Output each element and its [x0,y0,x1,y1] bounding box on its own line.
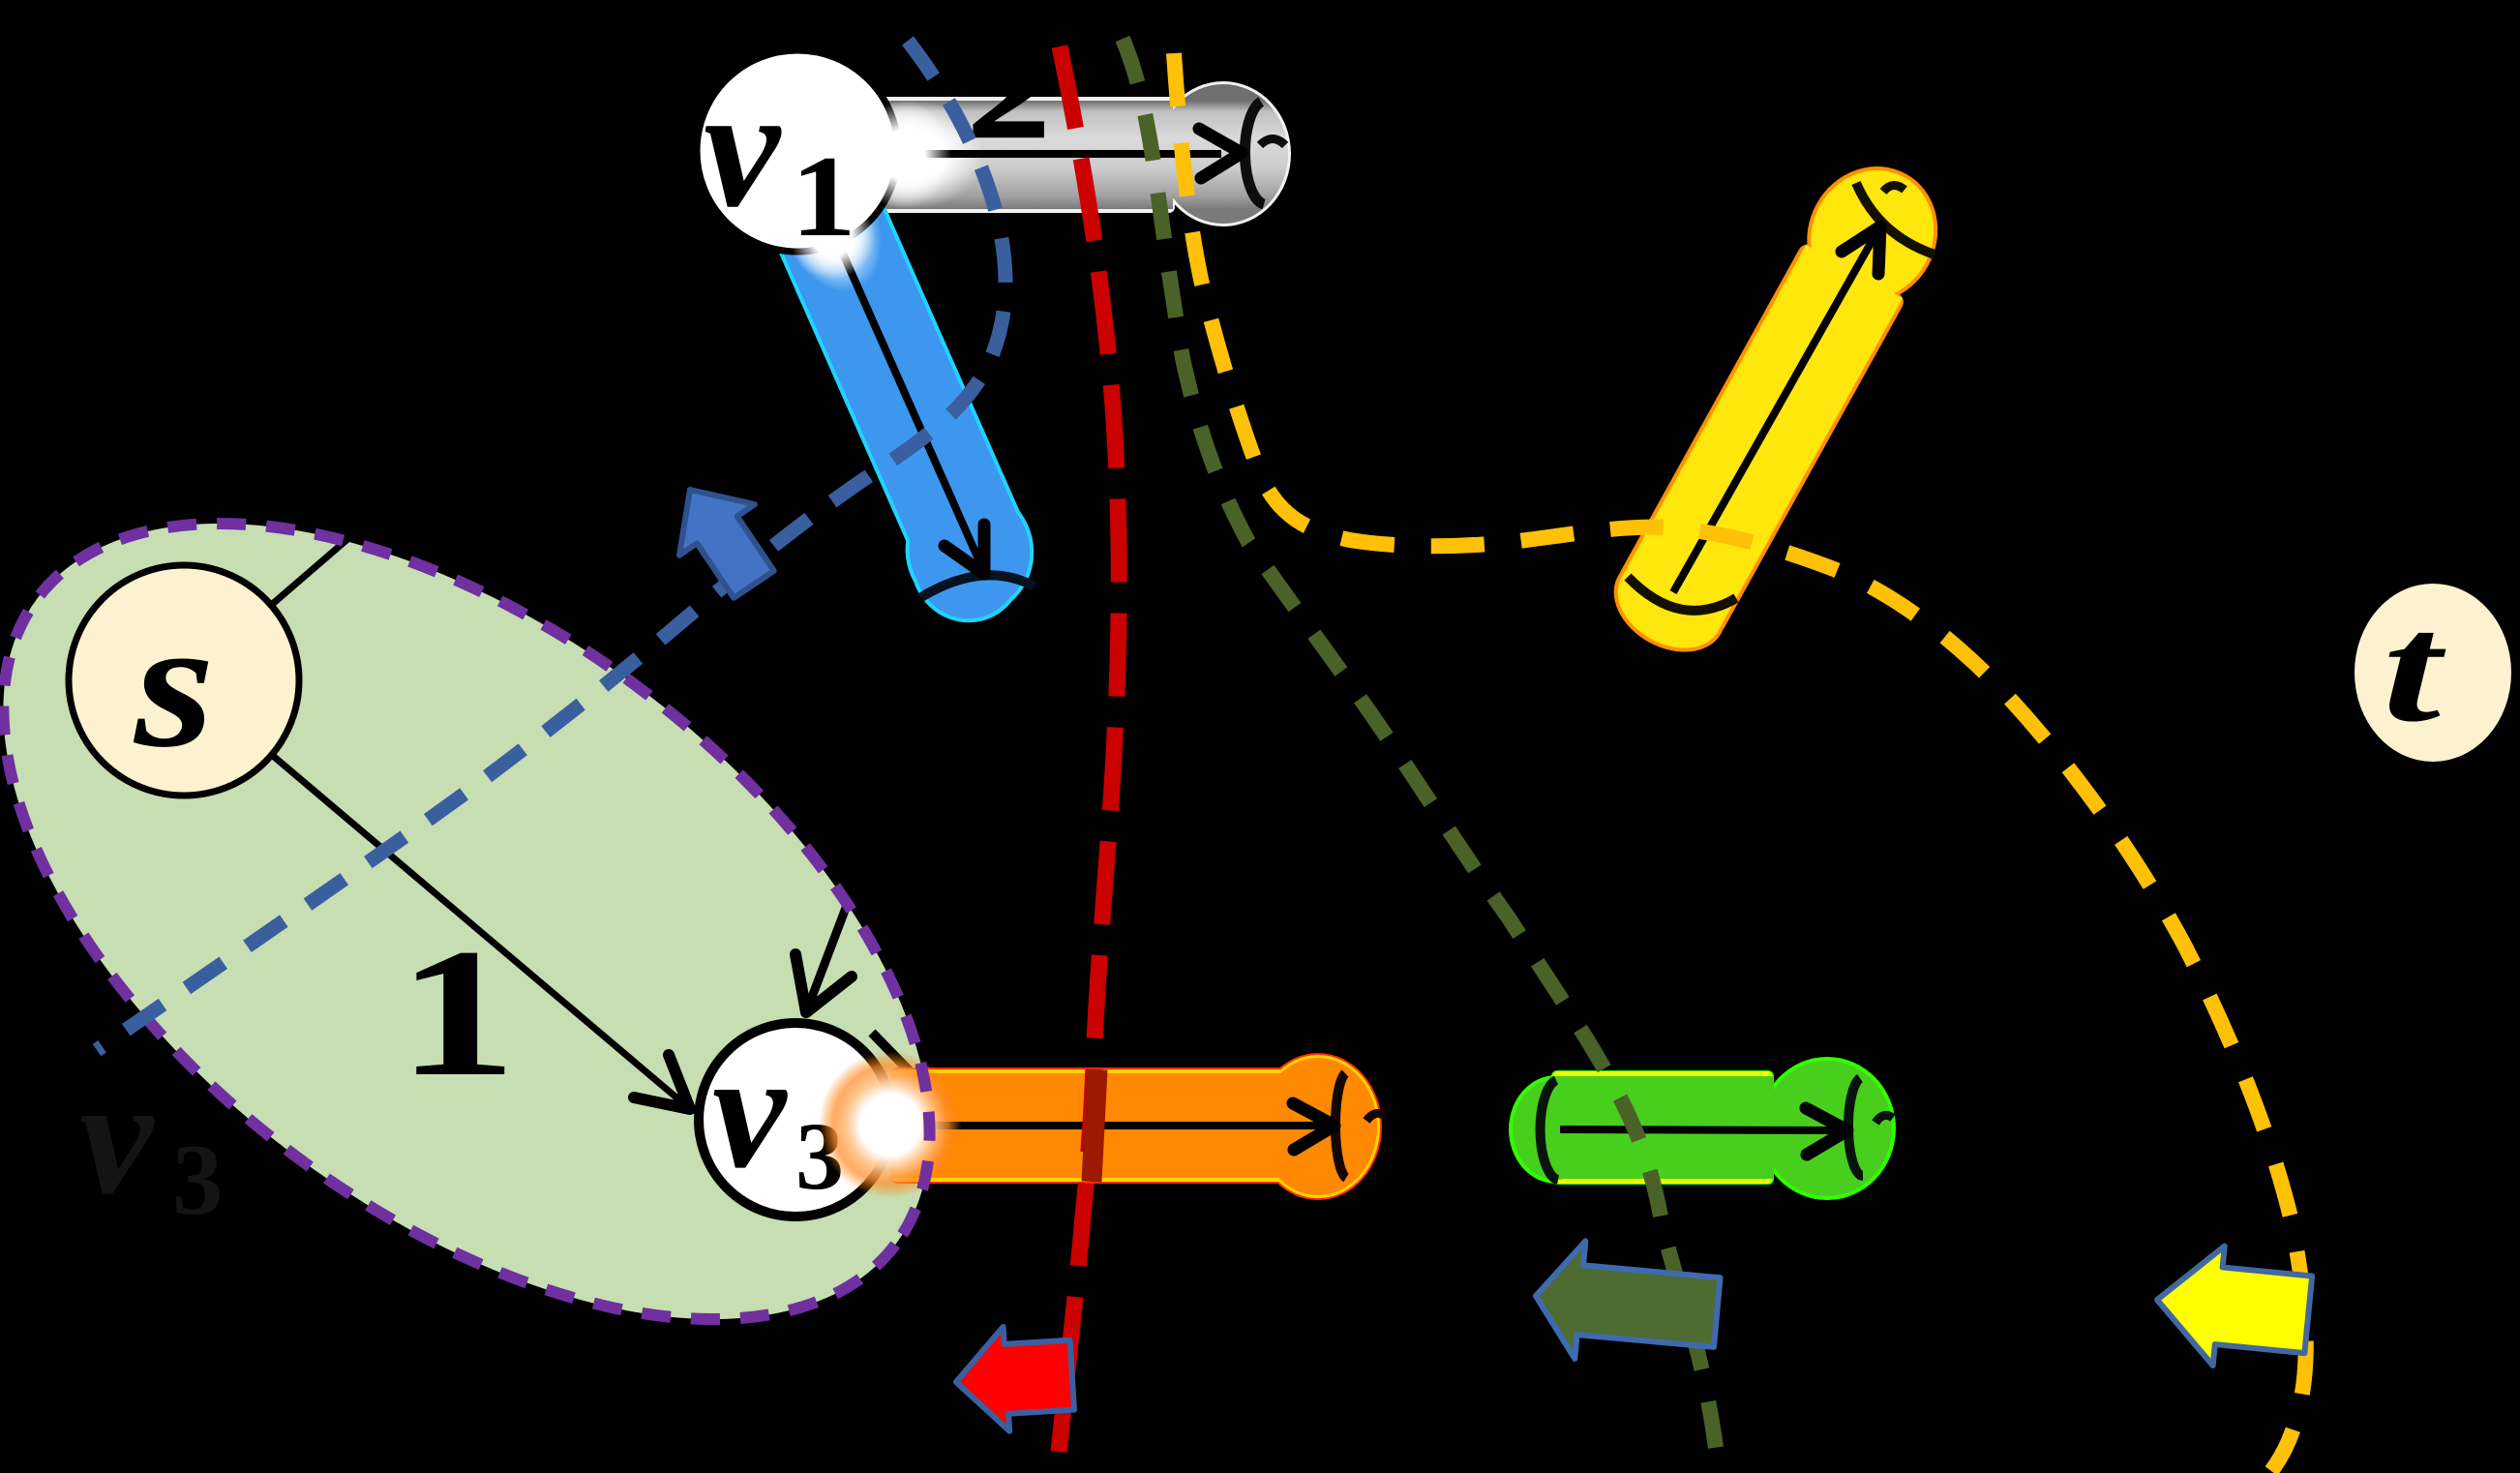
block arrow olive [1530,1237,1722,1371]
cut curve blue dashed [97,41,1005,1050]
orange tube opening arc [1335,1073,1346,1178]
block arrow red [953,1323,1075,1434]
svg-text:v: v [712,1019,788,1203]
svg-text:3: 3 [172,1123,224,1236]
yellow tube opening hook [1883,185,1905,192]
cut curve olive dashed [1123,39,1719,1473]
wire edge into v3 from above with arrowhead [795,859,864,1012]
wire edge s-v3 with arrowhead [184,680,690,1109]
gray tube opening arc [1245,102,1264,204]
svg-text:1: 1 [398,911,517,1114]
red dash over orange tube (darkened) [1092,1069,1097,1182]
label t [2383,584,2446,755]
green tube left opening arc [1541,1080,1558,1180]
yellow tube top opening arc [1856,183,1935,255]
orange-white glow over v3 right edge [819,1051,962,1198]
tube orange (edge out of v3) [876,1053,1385,1200]
gray tube opening hook [1260,139,1285,146]
tube yellow [1591,143,1962,673]
node v3 [699,1023,892,1217]
green tube opening hook [1875,1115,1893,1123]
region S (green ellipse) fill [0,366,1070,1473]
svg-text:v: v [79,1045,155,1229]
green tube flow arrow [1560,1129,1841,1130]
tube blue (edge from v1 down-right) [735,127,1056,641]
block arrow blue [652,465,792,610]
tube gray (edge out of v1, capacity 2) [845,81,1291,226]
wire stub at v3 upper right [872,1033,940,1102]
cut boundary purple dashed around region S [0,366,1070,1473]
cut curve red dashed [1059,46,1119,1452]
white glow over v1 right edge [855,101,951,209]
orange tube flow arrow [876,1122,1328,1129]
label 1 (capacity of edge s-v3) [398,911,517,1114]
node t [2355,584,2511,762]
node v1 [697,50,898,252]
green tube right opening arc [1848,1078,1863,1176]
orange tube opening hook [1366,1113,1385,1121]
label s [133,581,215,785]
yellow tube bottom opening arc [1628,577,1736,611]
svg-text:2: 2 [968,24,1049,164]
svg-text:v: v [704,51,782,243]
cut curve gold dashed [1174,53,2306,1471]
wire edge s-v1 [184,151,797,680]
blue tube flow arrow [797,151,984,574]
block arrow yellow [2151,1240,2314,1374]
gray tube flow arrow [861,150,1221,158]
yellow tube flow arrow [1673,226,1880,592]
white glow over v1 lower edge [790,195,875,280]
svg-text:s: s [133,581,215,785]
tube green [1509,1057,1896,1200]
blue tube opening arc [921,575,1035,597]
label 2 (capacity of gray tube) [968,24,1049,164]
svg-text:t: t [2383,584,2446,755]
node s [69,565,299,796]
svg-text:1: 1 [791,132,856,260]
